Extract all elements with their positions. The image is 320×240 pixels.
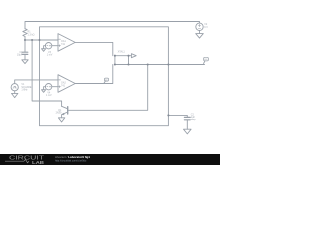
junction output net to base drop bbox=[147, 63, 149, 65]
svg-text:Aivanuit / Laborator9 fig1: Aivanuit / Laborator9 fig1 bbox=[55, 155, 90, 159]
svg-text:2N39: 2N39 bbox=[56, 112, 62, 115]
component box X1 bbox=[115, 56, 129, 65]
footer bar bbox=[0, 154, 220, 165]
svg-text:1 kHz: 1 kHz bbox=[21, 88, 28, 91]
wire V1 to ground bbox=[14, 91, 16, 94]
wire V4 left to ground bbox=[44, 87, 46, 90]
junction node A to collector branch bbox=[31, 39, 33, 41]
junction box X1 bottom-right bbox=[127, 63, 129, 65]
terminal glyph at end of output net bbox=[204, 57, 209, 61]
wire U1 output to box bbox=[75, 42, 113, 55]
wire node A down to capacitor C1 bbox=[24, 40, 26, 52]
wire node A horizontal to op-amp U1 minus input bbox=[25, 39, 58, 41]
svg-text:LAB: LAB bbox=[32, 160, 45, 165]
op-amp U2 minus mark bbox=[59, 79, 61, 81]
wire V1 to U2 minus input bbox=[15, 80, 58, 84]
component labels bbox=[17, 23, 208, 119]
wire V2 to ground bbox=[199, 31, 201, 34]
junction node A at R1 bottom bbox=[24, 39, 26, 41]
svg-text:9 V: 9 V bbox=[204, 26, 208, 29]
junction dots bbox=[24, 39, 170, 117]
ground at V4 bbox=[42, 90, 46, 93]
junction feedback rectangle to C2 branch bbox=[167, 114, 169, 116]
wire box to flag bbox=[129, 55, 132, 57]
wire R1 bottom to node A bbox=[24, 37, 26, 41]
op-amp U1 bbox=[58, 34, 75, 52]
wire V3 left to ground bbox=[44, 46, 46, 49]
wire V3 to U1 bbox=[52, 45, 58, 47]
logo LAB row bbox=[5, 160, 24, 162]
wire output drop to transistor base bbox=[68, 65, 147, 111]
label C2 squiggle bbox=[191, 118, 195, 121]
svg-text:XTAL1: XTAL1 bbox=[118, 50, 126, 53]
resistor R1 bbox=[23, 29, 27, 37]
junction box X1 top-right bbox=[127, 55, 129, 57]
voltage source V2 top right bbox=[196, 23, 203, 30]
ground at V3 bbox=[42, 49, 46, 52]
op-amp U1 plus mark bbox=[59, 45, 61, 47]
op-amp U1 minus mark bbox=[59, 38, 61, 40]
transistor Q1 collector diagonal bbox=[62, 106, 68, 109]
op-amp U2 plus mark bbox=[59, 86, 61, 88]
svg-text:741: 741 bbox=[61, 85, 66, 88]
voltage flag VF1 bbox=[131, 54, 136, 58]
wire V4 to U2 bbox=[52, 86, 58, 88]
wire feedback rectangle bbox=[40, 27, 169, 126]
svg-text:http://circuitlab.com/c/urt9du: http://circuitlab.com/c/urt9du bbox=[55, 159, 87, 162]
junction box X1 top-left bbox=[114, 55, 116, 57]
junction node A to feedback rectangle bbox=[38, 39, 40, 41]
probe glyph on U2 output bbox=[104, 78, 108, 81]
wire C2 to ground bbox=[186, 120, 188, 129]
ground below V2 bbox=[196, 34, 204, 39]
ground below C1 bbox=[22, 60, 28, 64]
junction output net to feedback rectangle bbox=[167, 63, 169, 65]
transistor Q1 emitter diagonal bbox=[62, 112, 68, 118]
ground below Q1 bbox=[58, 118, 64, 122]
junction box X1 bottom-left bbox=[114, 63, 116, 65]
voltage source V1 left bbox=[11, 84, 18, 91]
svg-text:741: 741 bbox=[61, 43, 66, 46]
svg-text:1.3 kΩ: 1.3 kΩ bbox=[28, 33, 35, 36]
wire long output net bbox=[129, 64, 205, 66]
transistor Q1 emitter arrow bbox=[62, 113, 64, 115]
wire top net from R1 to V2 bbox=[25, 22, 200, 29]
voltage source V4 to U2 plus input bbox=[45, 84, 51, 90]
svg-text:10µF: 10µF bbox=[17, 54, 23, 57]
ground below C2 bbox=[184, 129, 192, 134]
svg-text:1 mV: 1 mV bbox=[46, 94, 52, 97]
transistor Q1 base bar bbox=[67, 107, 69, 114]
wire C1 to ground bbox=[24, 55, 26, 60]
svg-text:1 mV: 1 mV bbox=[47, 54, 53, 57]
voltage source V3 to U1 plus input bbox=[45, 43, 51, 49]
op-amp U2 bbox=[58, 75, 75, 93]
ground below V1 bbox=[12, 93, 18, 97]
capacitor C1 bbox=[22, 51, 28, 53]
capacitor C2 bbox=[184, 116, 190, 118]
wire U2 output to box bottom bbox=[75, 65, 113, 84]
wire right net to capacitor C2 bbox=[168, 115, 187, 117]
wire mid vertical from node A to transistor collector bbox=[32, 40, 62, 106]
svg-text:1µF: 1µF bbox=[191, 116, 196, 119]
